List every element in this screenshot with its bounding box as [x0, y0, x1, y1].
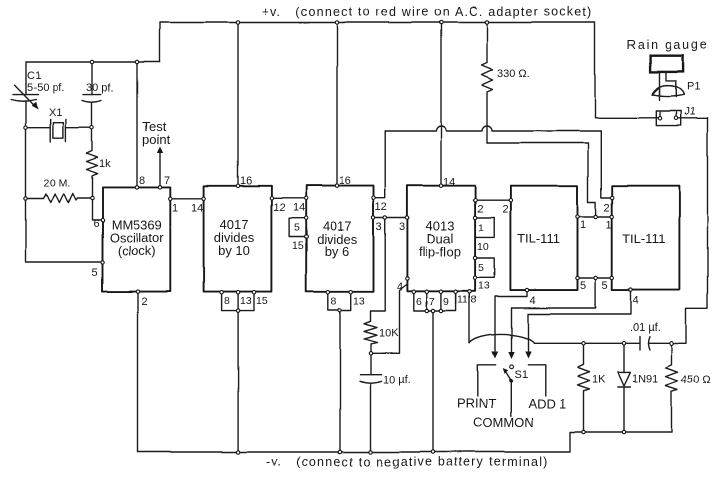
svg-text:5: 5 — [294, 222, 300, 234]
pin notch 6/7/9/11 bottom of 4013 — [414, 292, 477, 311]
wire MM5369 pin1 to 4017 pin14 — [170, 197, 203, 199]
svg-text:12: 12 — [375, 201, 387, 213]
pin notch 8/13/15 bottom of 4017 — [222, 292, 268, 310]
wire left rail — [26, 62, 103, 262]
svg-text:5: 5 — [602, 280, 608, 292]
svg-text:15: 15 — [256, 295, 268, 307]
svg-text:PRINT: PRINT — [457, 396, 496, 411]
svg-text:2: 2 — [502, 203, 508, 215]
svg-text:5-50 pf.: 5-50 pf. — [27, 82, 64, 94]
wire 4017b pin3 to 4013 pin3 — [374, 217, 408, 219]
svg-text:450 Ω: 450 Ω — [681, 374, 711, 386]
pin notch 5/15 left edge — [289, 218, 306, 252]
wire pin 16 to +v — [237, 23, 239, 186]
svg-text:20 M.: 20 M. — [44, 177, 70, 189]
svg-text:7: 7 — [164, 175, 170, 187]
svg-text:by 6: by 6 — [325, 244, 350, 259]
svg-text:14: 14 — [443, 176, 455, 188]
svg-text:14: 14 — [293, 202, 305, 214]
svg-text:-v. (connect to negative bat: -v. (connect to negative battery termina… — [266, 455, 549, 469]
svg-text:by 10: by 10 — [218, 243, 250, 258]
wire 4013 pin2 to TIL1 pin2 — [475, 199, 510, 201]
svg-text:10 µf.: 10 µf. — [383, 374, 411, 386]
svg-text:1k: 1k — [99, 158, 111, 170]
svg-text:(clock): (clock) — [117, 243, 155, 258]
svg-text:7: 7 — [429, 296, 435, 308]
plug P1 — [652, 72, 700, 101]
switch S1 contact PRINT — [478, 365, 496, 397]
switch arrow middle — [508, 352, 514, 359]
resistor 20M — [26, 177, 92, 203]
optocoupler TIL-111 first box — [510, 186, 577, 290]
svg-text:5: 5 — [580, 280, 586, 292]
svg-text:C1: C1 — [27, 70, 41, 82]
svg-text:330 Ω.: 330 Ω. — [497, 68, 530, 80]
capacitor .01uf series — [630, 322, 661, 350]
node test point — [142, 119, 171, 187]
wire TIL1 pin4 to switch left arrow — [495, 290, 527, 351]
IC 4017 divide-by-10 box — [204, 186, 272, 292]
svg-text:5: 5 — [478, 262, 484, 274]
wire pin 8 to +v — [136, 62, 138, 187]
wire pin 16 to +v — [336, 23, 338, 186]
wire +v top rail — [160, 23, 660, 118]
IC 4017 divide-by-6 box — [306, 186, 373, 292]
crystal X1 — [26, 107, 92, 142]
wire middle rail pin12 to TIL2 pin2 with hops — [385, 126, 612, 198]
capacitor 30pf — [83, 62, 114, 128]
svg-text:13: 13 — [353, 295, 365, 307]
rain gauge body — [651, 56, 684, 72]
svg-text:16: 16 — [240, 175, 252, 187]
wire 4013 pins 6/7/9 to -v rail — [432, 311, 434, 452]
switch arrow right — [525, 352, 531, 359]
svg-text:+v. (connect to red wire on: +v. (connect to red wire on A.C. adapter… — [262, 5, 592, 19]
op-amp U1 MM5369 oscillator box — [103, 187, 171, 291]
wire pin 4 to 10K bottom — [371, 279, 408, 353]
wire 4017b pin12 from middle rail — [374, 131, 386, 198]
svg-text:30 pf.: 30 pf. — [86, 82, 114, 94]
svg-text:1: 1 — [172, 202, 178, 214]
wire pin 14 to +v — [440, 23, 442, 186]
wire 4017 pin12 to 4017b pin14 — [271, 197, 306, 199]
optocoupler TIL-111 second box — [612, 186, 679, 290]
wire TIL1 pin5 to TIL2 pin5 — [578, 277, 613, 279]
resistor 1k — [87, 128, 112, 198]
switch arrow left — [492, 352, 498, 359]
svg-text:2: 2 — [477, 203, 483, 215]
svg-text:X1: X1 — [49, 107, 62, 119]
wire 4013 pin8 to RC network with arc over switch — [470, 118, 708, 343]
wire -v bottom rail — [138, 432, 672, 452]
resistor 330 ohm — [482, 23, 530, 144]
svg-text:11: 11 — [457, 294, 468, 306]
svg-text:1K: 1K — [592, 374, 606, 386]
svg-text:9: 9 — [443, 296, 449, 308]
svg-text:.01 µf.: .01 µf. — [630, 322, 661, 334]
svg-text:4: 4 — [633, 295, 639, 307]
wire pin 2 to -v rail — [137, 292, 139, 452]
svg-text:16: 16 — [339, 175, 351, 187]
wire 4017 notch to -v rail — [237, 311, 239, 452]
resistor 10K — [364, 218, 399, 353]
svg-text:ADD 1: ADD 1 — [528, 396, 566, 411]
diode 1N91 — [618, 343, 658, 432]
jack J1 — [656, 106, 707, 126]
svg-text:Rain gauge: Rain gauge — [627, 38, 709, 52]
svg-text:10K: 10K — [379, 327, 399, 339]
svg-text:6: 6 — [93, 218, 99, 230]
svg-text:1N91: 1N91 — [632, 373, 658, 385]
svg-text:COMMON: COMMON — [473, 415, 534, 430]
wire 330 bottom to TIL pin1 junction — [487, 143, 596, 217]
svg-text:13: 13 — [240, 295, 252, 307]
svg-text:4: 4 — [397, 281, 403, 293]
svg-text:S1: S1 — [515, 369, 528, 381]
svg-text:14: 14 — [191, 202, 203, 214]
svg-text:8: 8 — [331, 295, 337, 307]
svg-text:8: 8 — [224, 295, 230, 307]
svg-text:J1: J1 — [684, 106, 696, 118]
switch S1 wiper — [503, 365, 528, 417]
capacitor 10uf — [360, 353, 411, 452]
wire TIL1 pin1 to TIL2 pin1 — [578, 216, 613, 218]
svg-text:15: 15 — [292, 240, 304, 252]
capacitor C1 variable 5-50pf — [11, 70, 64, 110]
svg-text:10: 10 — [477, 241, 489, 253]
svg-text:4: 4 — [530, 295, 536, 307]
wire 1k/20M junction to pin 6 — [92, 198, 103, 220]
svg-text:1: 1 — [580, 219, 586, 231]
svg-text:13: 13 — [478, 280, 490, 292]
IC 4013 dual flip-flop box — [407, 185, 475, 291]
svg-text:TIL-111: TIL-111 — [517, 231, 560, 246]
svg-text:1: 1 — [606, 219, 612, 231]
svg-text:12: 12 — [273, 202, 285, 214]
svg-text:P1: P1 — [687, 81, 700, 93]
svg-text:flip-flop: flip-flop — [419, 244, 461, 259]
pin notch 1/10 right edge of 4013 — [475, 218, 494, 254]
svg-text:TIL-111: TIL-111 — [623, 231, 666, 246]
svg-text:6: 6 — [416, 296, 422, 308]
svg-text:5: 5 — [92, 267, 98, 279]
resistor 1K — [578, 343, 607, 432]
wire +v left branch to C1/30pf area — [26, 61, 160, 63]
switch S1 contact ADD1 — [528, 365, 545, 396]
svg-text:3: 3 — [399, 221, 405, 233]
svg-text:3: 3 — [376, 221, 382, 233]
wire TIL2 pin4 to switch right arrow — [528, 290, 631, 351]
pin notch 8/13 bottom — [328, 292, 365, 310]
wire TIL pin5 junction to switch middle arrow — [512, 278, 596, 351]
resistor 450 ohm — [666, 343, 711, 432]
wire 4017b notch to -v rail — [339, 310, 341, 452]
svg-text:2: 2 — [604, 202, 610, 214]
svg-text:8: 8 — [471, 294, 477, 306]
pin notch 5/13 right edge of 4013 — [475, 258, 494, 292]
svg-text:2: 2 — [141, 296, 147, 308]
svg-text:point: point — [142, 132, 171, 147]
svg-text:8: 8 — [139, 175, 145, 187]
svg-text:1: 1 — [478, 222, 484, 234]
